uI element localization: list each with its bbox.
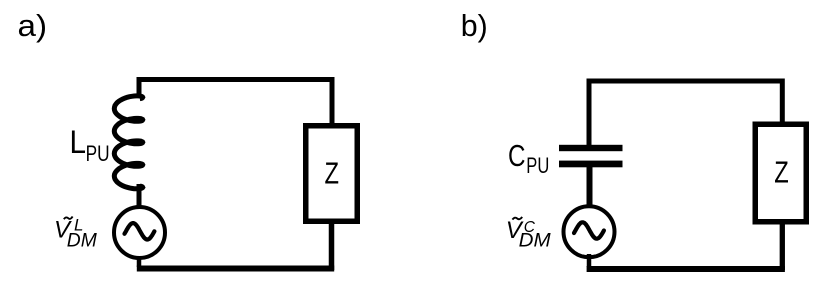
wire: circuit a top (left riser, top run, right riser to Z) xyxy=(139,80,332,125)
wire: source b bottom stub xyxy=(587,254,592,267)
svg-text:PU: PU xyxy=(526,153,549,178)
svg-text:DM: DM xyxy=(519,230,551,251)
wire: capacitor to source circle xyxy=(587,166,593,206)
wire: Z bottom riser (circuit b) xyxy=(780,222,785,270)
label L_PU xyxy=(70,124,110,166)
svg-text:C: C xyxy=(508,138,526,173)
svg-text:b): b) xyxy=(461,8,488,43)
label V_DM^C xyxy=(506,217,551,252)
wire: source a bottom stub xyxy=(137,256,142,267)
impedance Z box (circuit a) xyxy=(306,126,358,222)
label V_DM^L xyxy=(54,216,97,252)
svg-text:L: L xyxy=(70,124,87,160)
label C_PU xyxy=(508,138,549,178)
inductor L_PU coil xyxy=(114,96,142,189)
wire: circuit a bottom run xyxy=(137,266,334,272)
impedance Z box (circuit b) xyxy=(755,124,806,222)
svg-text:DM: DM xyxy=(67,230,97,251)
svg-text:Z: Z xyxy=(774,155,789,189)
svg-text:Z: Z xyxy=(325,157,340,191)
sine symbol in source a xyxy=(125,223,155,239)
wire: circuit b top (left riser, top run, right riser to Z) xyxy=(589,81,782,146)
capacitor C_PU bottom plate xyxy=(559,161,623,168)
capacitor C_PU top plate xyxy=(559,145,623,151)
source V_DM^L circle xyxy=(114,207,165,258)
wire: circuit b bottom run xyxy=(587,266,785,272)
svg-text:a): a) xyxy=(18,8,48,43)
svg-text:PU: PU xyxy=(86,141,110,166)
source V_DM^C circle xyxy=(564,206,615,257)
wire: Z bottom riser (circuit a) xyxy=(329,222,335,270)
wire: coil to source circle xyxy=(137,184,142,207)
sine symbol in source b xyxy=(574,222,604,238)
